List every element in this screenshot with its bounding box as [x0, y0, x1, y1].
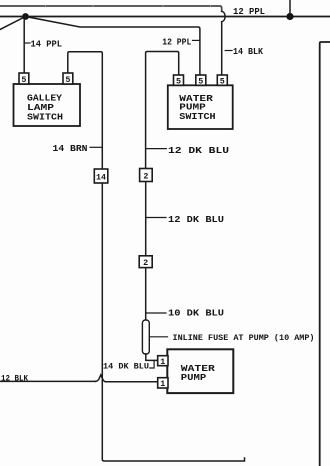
- svg-text:14: 14: [96, 173, 106, 183]
- node junction right: [286, 13, 293, 20]
- svg-text:14 PPL: 14 PPL: [31, 40, 63, 50]
- water pump switch box: [168, 85, 233, 129]
- svg-text:2: 2: [143, 171, 148, 181]
- leader 14 DK BLU label: [150, 361, 154, 368]
- svg-text:14 BLK: 14 BLK: [233, 47, 264, 57]
- water pump box: [167, 349, 233, 393]
- label tick 12 DK BLU upper: [146, 148, 166, 150]
- svg-text:5: 5: [65, 75, 70, 85]
- label tick 12 PPL left: [193, 39, 200, 41]
- wire 12 DK BLU between connectors 2: [145, 182, 147, 256]
- svg-text:12 PPL: 12 PPL: [162, 37, 191, 47]
- svg-text:12 DK BLU: 12 DK BLU: [168, 146, 229, 156]
- wire 14 PPL to galley lamp switch: [23, 17, 25, 74]
- label tick 14 PPL: [25, 42, 30, 44]
- wire 14 BLK hop over 12 PPL bus: [222, 11, 225, 21]
- galley lamp switch box: [14, 84, 81, 126]
- pump pin 1 lower: [158, 378, 168, 388]
- wire branch to left edge: [0, 17, 26, 30]
- svg-text:2: 2: [143, 258, 148, 268]
- connector 2 upper: [140, 169, 153, 182]
- svg-text:PUMP: PUMP: [181, 373, 207, 383]
- svg-text:INLINE FUSE AT PUMP (10 AMP): INLINE FUSE AT PUMP (10 AMP): [173, 333, 315, 343]
- wire top feed bus (upper line to 14 BLK drop): [0, 6, 222, 11]
- partial component box at right edge: [320, 42, 330, 466]
- svg-text:5: 5: [220, 77, 225, 87]
- svg-text:5: 5: [176, 77, 181, 87]
- wire 12 DK BLU from water pump switch left pin: [146, 52, 179, 169]
- svg-text:5: 5: [21, 75, 26, 85]
- svg-text:SWITCH: SWITCH: [27, 113, 63, 123]
- wire galley switch right pin up-over-down: [68, 52, 103, 169]
- pump pin 1 upper: [158, 356, 168, 366]
- connector 2 lower: [139, 256, 152, 268]
- svg-text:SWITCH: SWITCH: [179, 112, 215, 122]
- wire 14 BRN long vertical below connector 14: [102, 183, 244, 461]
- svg-text:10 DK BLU: 10 DK BLU: [168, 308, 224, 318]
- galley switch pin 5 left: [19, 73, 29, 84]
- label tick inline fuse: [150, 336, 168, 338]
- svg-text:1: 1: [160, 379, 165, 389]
- svg-text:1: 1: [160, 357, 165, 367]
- svg-text:12 PPL: 12 PPL: [233, 7, 265, 17]
- inline fuse F (10 AMP): [142, 320, 149, 354]
- water pump switch pin 5 middle: [196, 75, 206, 85]
- label tick 14 BRN: [90, 146, 102, 148]
- wire 12 BLK ground return: [0, 380, 96, 382]
- water pump switch pin 5 left: [174, 75, 184, 85]
- svg-text:GALLEY: GALLEY: [27, 93, 63, 103]
- svg-text:5: 5: [198, 77, 203, 87]
- svg-text:14 BRN: 14 BRN: [53, 144, 88, 154]
- svg-text:12 BLK: 12 BLK: [1, 374, 29, 384]
- svg-text:12 DK BLU: 12 DK BLU: [168, 215, 224, 225]
- wire 10 DK BLU to fuse: [145, 268, 147, 321]
- water pump switch pin 5 right: [217, 75, 227, 85]
- node junction left: [22, 13, 29, 20]
- wire 14 DK BLU into pump lower pin: [106, 381, 158, 383]
- connector 14: [94, 169, 108, 183]
- label tick 12 DK BLU lower: [146, 217, 166, 219]
- label tick 14 BLK: [225, 50, 232, 52]
- wire 14 BLK vertical to water pump switch: [221, 22, 223, 75]
- label tick 10 DK BLU: [147, 312, 167, 314]
- galley switch pin 5 right: [63, 73, 73, 84]
- wire 12 PPL main bus: [0, 16, 330, 18]
- wire crossover hop at long vertical: [96, 375, 106, 382]
- wire fuse to pump pin 1: [146, 354, 158, 360]
- svg-text:14 DK BLU: 14 DK BLU: [103, 362, 149, 372]
- wire 12 PPL branch to water pump switch: [26, 17, 200, 76]
- svg-text:LAMP: LAMP: [27, 103, 55, 113]
- wire from top edge to right junction: [289, 0, 291, 17]
